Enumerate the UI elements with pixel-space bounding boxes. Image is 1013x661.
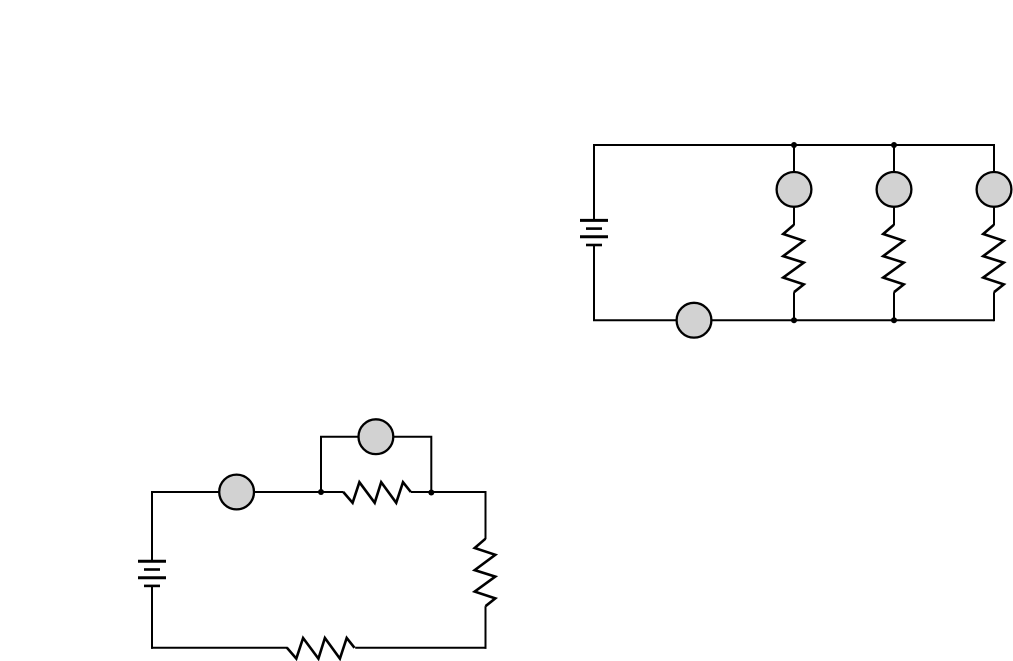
wire left upper A [593, 144, 595, 220]
wire right upper B [485, 491, 487, 539]
resistor R2 branch2 [883, 225, 904, 293]
meter M3 branch3 [977, 172, 1012, 207]
wire left lower A [593, 245, 595, 320]
wire branch3 upper (right edge) [993, 144, 995, 225]
wire branch2 upper [893, 145, 895, 225]
battery B1 [580, 220, 608, 245]
voltmeter loop wire [321, 437, 431, 492]
wire bottom left B [151, 647, 288, 649]
wire branch1 lower [793, 292, 795, 320]
node left of R4 [318, 489, 324, 495]
resistor R6 (bottom, horizontal) [287, 638, 355, 659]
resistor R4 (top, horizontal) [343, 482, 411, 503]
wire top bus A [593, 144, 994, 146]
wire branch2 lower [893, 292, 895, 320]
ammeter A1 bottom wire [677, 303, 712, 338]
battery B2 [138, 561, 166, 586]
node bottom branch2 [891, 317, 897, 323]
resistor R1 branch1 [783, 225, 804, 293]
wire left upper B [151, 491, 153, 561]
ammeter A2 [219, 475, 254, 510]
wire branch1 upper [793, 145, 795, 225]
meter M1 branch1 [777, 172, 812, 207]
node top branch1 [791, 142, 797, 148]
voltmeter V1 [359, 419, 394, 454]
resistor R5 (right, vertical) [475, 539, 496, 607]
wire left lower B [151, 586, 153, 649]
wire bottom bus A [593, 319, 994, 321]
meter M2 branch2 [877, 172, 912, 207]
node right of R4 [428, 490, 434, 496]
wire branch3 lower [993, 292, 995, 321]
resistor R3 branch3 [983, 225, 1004, 293]
wire bottom right B [355, 647, 486, 649]
wire right lower B [485, 606, 487, 649]
node top branch2 [891, 142, 897, 148]
wire top right B [411, 491, 487, 493]
node bottom branch1 [791, 317, 797, 323]
wire top left B [151, 491, 344, 493]
